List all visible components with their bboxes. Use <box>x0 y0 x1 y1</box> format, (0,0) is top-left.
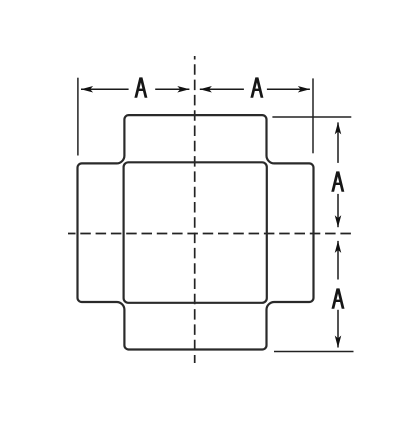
top-right dimension line <box>200 88 244 90</box>
cross fitting outer outline <box>78 115 314 349</box>
bottom-right horizontal extension line <box>274 351 354 353</box>
top-right horizontal extension line <box>272 116 351 118</box>
arrow pointing left at left extension <box>81 86 93 93</box>
label A top-left <box>134 77 147 97</box>
arrow pointing left at centerline <box>200 86 212 93</box>
top-left dimension line <box>81 88 129 90</box>
label A top-right <box>250 77 263 97</box>
horizontal centerline <box>68 233 351 235</box>
inner body square <box>124 162 267 302</box>
label A right-lower <box>332 288 345 308</box>
left extension line <box>77 78 79 156</box>
right upper dimension line <box>337 122 339 162</box>
right lower dimension line <box>337 241 339 280</box>
arrow pointing up at top extension <box>335 122 342 134</box>
arrow pointing right at right extension <box>298 86 310 93</box>
arrow pointing up at centerline <box>335 241 342 253</box>
arrow pointing down at centerline <box>335 215 342 227</box>
arrow pointing right at centerline <box>177 86 189 93</box>
arrow pointing down at bottom extension <box>335 336 342 348</box>
label A right-upper <box>331 171 344 191</box>
vertical centerline <box>194 56 196 363</box>
right vertical extension line <box>312 78 314 153</box>
